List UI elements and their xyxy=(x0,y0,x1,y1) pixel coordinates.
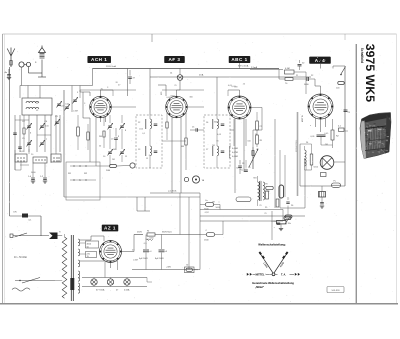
svg-text:2M: 2M xyxy=(325,144,328,146)
svg-text:Schaltbild: Schaltbild xyxy=(360,48,364,63)
svg-text:0,3M: 0,3M xyxy=(285,68,290,70)
svg-text:4µF 500V: 4µF 500V xyxy=(139,258,149,260)
svg-text:503-993: 503-993 xyxy=(331,290,340,292)
svg-text:ACH 1: ACH 1 xyxy=(91,57,107,62)
svg-text:T. A.: T. A. xyxy=(281,274,286,277)
svg-text:0,65A: 0,65A xyxy=(124,289,130,292)
svg-text:1M: 1M xyxy=(212,202,215,204)
svg-text:2mA: 2mA xyxy=(199,74,204,77)
svg-text:250V: 250V xyxy=(137,232,142,234)
svg-text:„Mittel“: „Mittel“ xyxy=(255,286,265,289)
svg-text:360V Nom: 360V Nom xyxy=(162,232,172,234)
svg-text:70h: 70h xyxy=(288,223,291,225)
svg-text:Wellenschaltstellung:: Wellenschaltstellung: xyxy=(258,243,286,247)
svg-text:Gr: Gr xyxy=(186,264,189,267)
svg-text:a,b 2/10k: a,b 2/10k xyxy=(168,191,177,193)
svg-text:MITTEL: MITTEL xyxy=(255,274,264,277)
svg-text:2,5mA: 2,5mA xyxy=(251,66,258,69)
svg-text:x: x xyxy=(310,125,311,127)
svg-text:40 ÷ 50 Watt: 40 ÷ 50 Watt xyxy=(14,256,27,259)
svg-text:1M: 1M xyxy=(113,149,116,151)
svg-text:AF 3: AF 3 xyxy=(169,57,181,62)
svg-text:An: An xyxy=(5,71,8,74)
svg-text:0,3M: 0,3M xyxy=(133,259,138,261)
svg-text:AZ 1: AZ 1 xyxy=(104,226,116,231)
svg-text:6V 70mA: 6V 70mA xyxy=(96,289,105,292)
svg-text:0,3M: 0,3M xyxy=(271,221,276,223)
svg-text:0,05M: 0,05M xyxy=(232,156,238,158)
svg-text:ABC 1: ABC 1 xyxy=(231,57,247,62)
svg-text:+30V: +30V xyxy=(166,267,172,269)
svg-text:8µF 500V: 8µF 500V xyxy=(155,258,165,260)
svg-text:NG: NG xyxy=(254,178,257,180)
svg-text:x: x xyxy=(218,202,219,204)
svg-text:1M: 1M xyxy=(181,146,184,148)
svg-text:Tr: Tr xyxy=(59,231,61,234)
svg-text:20M: 20M xyxy=(106,170,110,172)
svg-text:2M: 2M xyxy=(112,159,115,161)
svg-text:ERSATZTEIL: ERSATZTEIL xyxy=(295,139,298,152)
svg-text:2M: 2M xyxy=(266,191,269,193)
svg-text:0,07M: 0,07M xyxy=(232,152,238,154)
svg-text:2M: 2M xyxy=(99,136,102,138)
svg-text:2M: 2M xyxy=(212,145,215,147)
svg-text:0,05M: 0,05M xyxy=(232,148,238,150)
svg-text:0,3M: 0,3M xyxy=(73,111,78,113)
svg-text:2M: 2M xyxy=(235,86,238,88)
svg-text:MET W: MET W xyxy=(302,115,304,122)
svg-text:Gezeichnete Wellenschaltstellu: Gezeichnete Wellenschaltstellung xyxy=(252,281,294,285)
